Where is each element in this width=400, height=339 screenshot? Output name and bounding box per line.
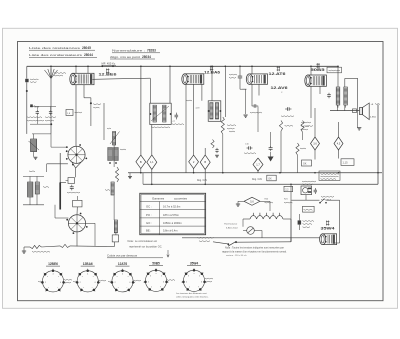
svg-text:35W4: 35W4 — [190, 261, 199, 265]
capacitor C12 — [270, 132, 272, 147]
svg-text:Nota : Le commutateur est: Nota : Le commutateur est — [128, 240, 158, 243]
wire: V1 cathode lead — [83, 85, 85, 98]
tube V2 12BA6 (IF amp) — [185, 74, 204, 85]
wire: V1 top leads — [75, 66, 77, 73]
svg-text:1,15: 1,15 — [343, 161, 349, 165]
svg-text:1,7: 1,7 — [256, 164, 260, 167]
oscillator coil L2 — [28, 182, 33, 197]
resistor R12 mid-right — [296, 143, 299, 155]
variable capacitor gang CV1 — [68, 146, 85, 163]
pentode symbol above V4 label — [316, 63, 319, 65]
resistor R11 — [301, 121, 304, 133]
svg-text:50B5: 50B5 — [152, 261, 160, 265]
svg-text:Liste des condensateurs: Liste des condensateurs — [29, 53, 83, 57]
box 1.15 right — [341, 159, 354, 166]
band switch coils L3a L3b — [108, 148, 113, 161]
padder box 1.8 — [66, 110, 73, 116]
capacitor C16 — [328, 93, 330, 95]
svg-text:rapport à la masse d'un récept: rapport à la masse d'un récepteur en fon… — [222, 250, 287, 253]
fuse box — [303, 206, 315, 212]
table gammes couvertes — [140, 193, 206, 234]
schematic border frame — [18, 42, 384, 301]
antenna coil L1 — [31, 139, 37, 152]
svg-text:BE :: BE : — [146, 229, 152, 233]
note box beside 50B5 — [327, 67, 342, 73]
wire: T1 right lead from bus — [169, 66, 171, 103]
padder box above CV2 — [73, 200, 82, 207]
capacitor C19 — [314, 188, 316, 190]
svg-text:celles remarquées entre bro: celles remarquées entre broches. — [176, 296, 209, 299]
wire: grid return — [36, 107, 38, 110]
wire: screen feed right — [377, 105, 379, 185]
svg-text:Terre: Terre — [34, 106, 40, 109]
svg-text:187m à 576m: 187m à 576m — [163, 213, 179, 217]
svg-text:12BE6: 12BE6 — [48, 262, 58, 266]
coil L4 — [111, 182, 114, 195]
wire: AVC bus — [128, 172, 382, 174]
resistor labels right — [301, 121, 311, 124]
resistor R4 — [115, 167, 118, 182]
svg-text:GK: GK — [303, 163, 307, 166]
wire: V3 cathode leads — [251, 84, 253, 106]
wire: L2 wiring — [29, 176, 31, 182]
svg-text:12.BE6: 12.BE6 — [99, 73, 117, 77]
filament string — [250, 213, 283, 219]
wire: B+ to mains — [290, 184, 292, 242]
test diamond 3.6 — [314, 108, 316, 137]
svg-text:4,85Ω: 4,85Ω — [370, 116, 376, 118]
capacitor C10 — [229, 73, 237, 76]
resistor R10 — [279, 121, 282, 132]
capacitor C8 — [216, 148, 218, 150]
capacitor C2 — [36, 110, 38, 112]
trimmer capacitor CT1 — [68, 178, 74, 184]
svg-text:12AT6: 12AT6 — [118, 262, 128, 266]
wire: det out — [258, 105, 260, 107]
tube V5 35W4 (rectifier) — [323, 234, 337, 245]
wire: OT feeds — [337, 66, 339, 87]
svg-text:Thermistance: Thermistance — [224, 223, 238, 226]
svg-text:PO :: PO : — [146, 213, 152, 217]
capacitor C4 — [71, 185, 73, 187]
ground bottom-left — [23, 247, 25, 251]
output transformer primary — [336, 87, 340, 105]
svg-text:Gammes: Gammes — [152, 196, 165, 200]
wire: CV2 leads — [76, 207, 78, 215]
coil L3 with arrow — [113, 132, 116, 146]
capacitor C14 — [285, 108, 287, 110]
pentagrid symbol above V1 label — [106, 69, 109, 71]
ground at bus1 left end — [129, 173, 131, 177]
wire: heater tap under V1 — [103, 103, 105, 140]
wire: V4 leads — [310, 66, 312, 75]
box GK mid — [267, 175, 276, 181]
svg-text:B: B — [140, 160, 142, 164]
wire: V1 plate to T1 — [93, 78, 151, 79]
oscillator coil L2b — [35, 182, 39, 194]
ground under C13 — [243, 114, 247, 116]
pilot lamp box — [112, 235, 118, 242]
capacitor C7 — [175, 113, 177, 116]
svg-text:16,7m à 52,6m: 16,7m à 52,6m — [163, 205, 180, 209]
svg-text:3,6: 3,6 — [313, 143, 317, 146]
svg-text:28034: 28034 — [142, 55, 151, 59]
tube base diagram 50B5 — [145, 270, 166, 291]
capacitor C3 — [50, 110, 52, 112]
resistor R3 labels — [93, 103, 101, 106]
svg-text:28045: 28045 — [82, 46, 91, 50]
svg-text:Culots vus par dessous: Culots vus par dessous — [107, 254, 138, 258]
svg-text:GK: GK — [268, 178, 272, 181]
wire: switch column — [113, 145, 115, 167]
svg-text:Liste des résistances: Liste des résistances — [29, 46, 81, 50]
svg-text:Align. mis au point: Align. mis au point — [110, 55, 140, 59]
svg-text:1050m à 2000m: 1050m à 2000m — [163, 221, 182, 225]
wire: AVC line from bus — [140, 66, 142, 155]
resistor R7 small — [211, 140, 214, 149]
tube base diagram 12BE6 — [42, 271, 63, 292]
svg-text:Nota : Toutes les tensions ind: Nota : Toutes les tensions indiquées son… — [225, 247, 284, 250]
svg-text:28044: 28044 — [84, 53, 93, 57]
wire: T2 top from bus — [211, 66, 213, 101]
box GK right — [302, 160, 312, 166]
label secteur small — [198, 236, 214, 239]
horizontal test diamond 5.6 — [244, 197, 260, 205]
wire: heater chain bus A — [182, 237, 320, 239]
tube base diagram 12BA6 — [77, 271, 98, 292]
test diamond 2 — [189, 155, 199, 169]
wire: C10 net — [240, 88, 246, 90]
wire: heavy oscillator lead — [59, 153, 61, 182]
thermistor — [247, 227, 255, 235]
wire: V2 leads — [185, 84, 187, 172]
variable capacitor gang CV2 — [68, 215, 85, 232]
svg-text:OC :: OC : — [146, 205, 152, 209]
value labels under C2 C3 — [27, 116, 42, 119]
tube V1 12BE6 (converter) — [73, 73, 94, 84]
output transformer secondary — [344, 87, 348, 105]
svg-text:Les tensions des filaments son: Les tensions des filaments sont — [176, 292, 207, 295]
tube base diagram 35W4 — [183, 270, 204, 291]
capacitor C13 — [252, 105, 254, 107]
coil L5 — [114, 220, 117, 233]
test diamond 1.7 — [257, 132, 259, 158]
terminal terre — [30, 104, 33, 107]
wire: gang1 left links — [50, 134, 52, 147]
wire: V1 grid lead to gang — [75, 85, 77, 147]
wire: long lead right of V2 — [224, 66, 226, 117]
wire: mains line — [292, 199, 320, 201]
svg-text:5,6: 5,6 — [250, 200, 254, 203]
svg-text:Nomenclature :: Nomenclature : — [112, 49, 145, 53]
svg-text:12.AV6: 12.AV6 — [271, 86, 288, 90]
rectifier symbol above 35W4 — [326, 221, 329, 223]
wire: AF coupling — [280, 112, 282, 121]
tube V4 50B5 (output) — [308, 75, 327, 86]
box 2.2x — [284, 186, 293, 191]
svg-text:50B5: 50B5 — [311, 68, 325, 72]
heater switch — [228, 241, 237, 246]
IF transformer T2 (MF2) — [208, 101, 221, 122]
resistor R2 — [60, 244, 70, 247]
capacitor C1 — [25, 79, 28, 82]
ground under L1 — [34, 156, 38, 158]
tube V3 12AT6 (det/AF) — [249, 74, 267, 84]
ground near diamond — [237, 201, 239, 203]
wire: left input branch — [26, 66, 28, 78]
wire: rectifier leads — [334, 242, 339, 244]
test diamond 1.1 — [147, 155, 157, 170]
pentode symbol above V2 label — [210, 66, 213, 68]
svg-text:4,5: 4,5 — [337, 143, 341, 146]
wire: heater run left — [70, 245, 107, 248]
wire: osc grid link — [46, 145, 60, 147]
label secteur — [302, 180, 316, 183]
note box lamp — [319, 171, 340, 180]
wire: regulation bus — [143, 183, 378, 185]
wire: CV1 bottom — [72, 162, 76, 168]
resistor R6 — [221, 117, 224, 134]
svg-text:12BA6: 12BA6 — [83, 262, 93, 266]
wire: L1 wiring — [32, 133, 51, 135]
capacitor C17 electrolytic — [298, 220, 302, 224]
svg-text:B: B — [204, 160, 206, 164]
svg-text:1,1: 1,1 — [150, 160, 154, 164]
wire: heater chain bus B — [213, 242, 228, 244]
ground speaker — [357, 113, 359, 128]
wire: V3 leads — [251, 66, 253, 74]
svg-text:représenté sur la position OC.: représenté sur la position OC. — [129, 246, 163, 249]
svg-text:couvertes: couvertes — [174, 196, 188, 200]
svg-text:12.AT6: 12.AT6 — [269, 72, 286, 76]
test diamond B2 — [200, 155, 210, 170]
resistor R1 — [24, 246, 30, 248]
speaker HP — [330, 110, 360, 112]
svg-text:secteur : 110 v 50 c/s: secteur : 110 v 50 c/s — [226, 254, 248, 257]
IF transformer T1 (MF1) — [150, 103, 171, 124]
tube base diagram 12AT6 — [112, 271, 133, 292]
svg-text:Rég. CAV: Rég. CAV — [252, 178, 263, 181]
switch interrupteur — [320, 199, 325, 203]
svg-text:5,8m à 6,4m: 5,8m à 6,4m — [163, 229, 177, 233]
svg-text:GO :: GO : — [146, 221, 152, 225]
svg-text:78283: 78283 — [147, 49, 156, 53]
svg-text:35W4: 35W4 — [321, 226, 335, 230]
wire: top HT bus — [27, 65, 338, 67]
test diamond B1 — [136, 155, 146, 169]
antenna — [50, 66, 52, 134]
test diamond 4.5 — [338, 122, 340, 137]
triode symbol above V3 label — [277, 66, 280, 68]
svg-text:MF: 455 Kc: MF: 455 Kc — [102, 61, 116, 65]
svg-text:Rég. CAV: Rég. CAV — [197, 179, 208, 182]
mains plug — [301, 186, 312, 195]
svg-text:6,8Ω à froid: 6,8Ω à froid — [226, 226, 238, 229]
misc value labels — [120, 148, 126, 151]
